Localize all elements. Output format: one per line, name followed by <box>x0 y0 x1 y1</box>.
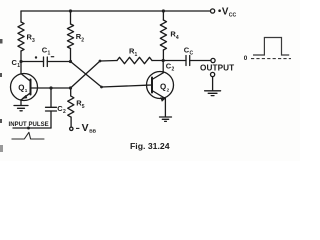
node Q1 base / R5 / diagonal <box>69 86 72 89</box>
junction node dots <box>19 9 165 129</box>
wire R3 top <box>20 11 22 22</box>
label VCC <box>218 6 236 18</box>
wire C1 left <box>21 61 44 63</box>
svg-text:1: 1 <box>25 88 28 93</box>
svg-text:Q: Q <box>160 83 166 92</box>
svg-text:4: 4 <box>176 35 179 41</box>
wire Q2 collector <box>162 61 164 73</box>
svg-text:0: 0 <box>244 55 248 62</box>
terminal OUTPUT bottom <box>211 72 215 76</box>
wire VCC terminal lead <box>211 9 215 13</box>
capacitor C2 <box>46 107 57 111</box>
svg-text:3: 3 <box>32 38 35 44</box>
svg-text:1: 1 <box>48 51 51 57</box>
svg-text:2: 2 <box>172 67 175 73</box>
label -VBB <box>76 123 97 135</box>
wire C1 right <box>47 61 70 63</box>
transistor Q1 <box>11 74 38 101</box>
svg-text:INPUT PULSE: INPUT PULSE <box>9 122 49 128</box>
wire output ground lead <box>212 77 214 91</box>
node bend of diagonal B <box>99 60 102 63</box>
svg-text:V: V <box>82 123 89 134</box>
wire R2 top <box>70 11 72 24</box>
wire R5 bottom <box>70 117 72 127</box>
resistor R2 <box>67 24 73 49</box>
capacitor C1 <box>44 57 48 67</box>
svg-text:5: 5 <box>82 104 85 110</box>
resistor R5 <box>68 96 74 117</box>
wire cross-coupling diagonal A to Q2 base <box>71 62 153 88</box>
wire R3 bottom to Q1 collector <box>20 51 22 74</box>
svg-text:OUTPUT: OUTPUT <box>200 64 234 73</box>
wire R5 top <box>70 88 72 96</box>
wire CC right to output terminal <box>190 60 211 62</box>
svg-text:Fig. 31.24: Fig. 31.24 <box>130 141 170 151</box>
wire VCC top rail <box>21 10 211 12</box>
scan artifact marks on left edge <box>0 39 3 152</box>
terminal -VBB <box>70 127 73 130</box>
wire R2 bottom <box>70 49 72 62</box>
polarity minus right of C1 <box>51 56 54 58</box>
wire Q1 emitter <box>20 100 22 105</box>
wire R4 bottom to collector node <box>162 50 164 61</box>
ground output <box>205 91 221 96</box>
node R2-C1-diagonal <box>69 60 72 63</box>
ground Q2 <box>160 117 172 121</box>
node bend of diagonal A <box>100 86 103 89</box>
resistor R4 <box>160 20 166 50</box>
svg-text:BB: BB <box>89 129 96 135</box>
wire cross-coupling diagonal B to R1 <box>31 61 118 89</box>
wire C2 top from Q1 base <box>50 88 52 107</box>
node input pulse <box>27 127 30 130</box>
svg-text:2: 2 <box>63 109 66 115</box>
wire R4 top <box>162 11 164 20</box>
wire CC left <box>163 60 186 62</box>
svg-text:Q: Q <box>18 83 24 92</box>
node rail-R4 <box>162 9 165 12</box>
capacitor CC <box>186 56 190 66</box>
resistor R3 <box>18 22 24 51</box>
resistor R1 <box>117 57 152 63</box>
svg-text:2: 2 <box>81 38 84 44</box>
svg-text:2: 2 <box>167 87 170 92</box>
node C1 collector Q1 <box>19 60 22 63</box>
wire C2 bottom to input <box>50 111 52 128</box>
node C2 collector Q2 <box>162 59 165 62</box>
svg-text:C: C <box>190 51 194 57</box>
node Q1 base / C2 <box>49 86 52 89</box>
svg-text:CC: CC <box>229 13 237 19</box>
polarity dot left of C1 <box>35 56 37 58</box>
transistor Q2 <box>147 72 174 102</box>
ground Q1 <box>14 106 28 111</box>
wire Q2 emitter <box>164 98 166 116</box>
node rail-R2 <box>69 9 72 12</box>
wire input pulse line <box>13 127 51 129</box>
input pulse spike waveform <box>12 132 45 139</box>
svg-text:1: 1 <box>135 52 138 58</box>
svg-text:1: 1 <box>17 63 20 69</box>
wire R1 right to Q2 collector node <box>152 60 163 62</box>
square pulse waveform top right <box>253 38 289 56</box>
dashed zero line of square pulse <box>251 58 291 60</box>
terminal OUTPUT top <box>211 58 215 62</box>
